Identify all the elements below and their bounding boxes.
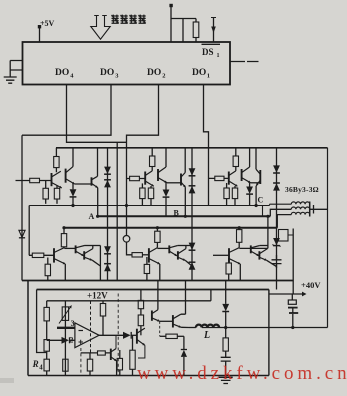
wire feedback drop [159, 321, 161, 336]
wire column x293 + resistor [292, 229, 294, 295]
ground (bottom) [219, 377, 233, 383]
svg-text:2: 2 [162, 73, 165, 80]
resistor R14 (emitter, cell1) [54, 188, 59, 199]
wire base line cell3 [209, 177, 229, 179]
resistor R-top (pull-up above IC) [193, 22, 199, 38]
wire base line cell1 [16, 180, 52, 182]
resistor R13 (emitter, cell1) [43, 188, 48, 199]
wire divider x90 [90, 301, 92, 353]
transistor Q41 [53, 248, 55, 262]
svg-text:+40V: +40V [301, 280, 321, 290]
resistor R81 [130, 350, 135, 369]
transistor Q32 [241, 169, 243, 181]
op-amp U2 [75, 323, 99, 348]
wire Q23 collector to rail [184, 148, 186, 173]
svg-text:A: A [89, 212, 95, 221]
svg-text:DS: DS [202, 47, 214, 57]
junction dot [238, 226, 241, 229]
resistor R22 (collector pull, cell2) [150, 156, 155, 167]
wire DO1 route [204, 85, 209, 206]
resistor R52 (base) [132, 253, 142, 257]
junction dot [291, 326, 294, 329]
wire clamp column 1 [107, 148, 109, 281]
svg-text:4: 4 [39, 365, 43, 372]
wire coil feed 2 [270, 209, 291, 216]
resistor R79 [87, 359, 92, 371]
svg-text:+12V: +12V [87, 291, 108, 301]
junction dot [156, 226, 159, 229]
resistor R76 [166, 334, 177, 338]
resistor R31 (base, cell3) [215, 176, 224, 180]
svg-text:DO: DO [100, 68, 114, 78]
wire Q12 collector to rail [72, 148, 74, 167]
ground (IC left) [4, 77, 17, 83]
diode VD15 [104, 264, 111, 271]
wire top net horizontal [171, 18, 196, 20]
IC right pin wire [230, 61, 259, 63]
transistor Q31 [228, 172, 230, 185]
diode VD33 [273, 183, 280, 190]
transistor Q62 [250, 245, 252, 253]
resistor R34 (emitter, cell3) [232, 188, 237, 199]
IC left pins [10, 61, 22, 78]
resistor R77 [223, 338, 228, 351]
capacitor/test point (teardrop) [127, 228, 133, 255]
svg-text:+5V: +5V [40, 19, 55, 28]
label data-bus (Chinese characters) [112, 15, 119, 24]
resistor R43 (under base) [45, 264, 50, 276]
resistor R41 [61, 234, 66, 247]
transistor Q73 [151, 311, 153, 321]
svg-text:B: B [174, 209, 180, 218]
wire coil feed 3 [277, 215, 291, 228]
node left rail [21, 135, 23, 280]
svg-text:www.dzkfw.com.cn: www.dzkfw.com.cn [137, 363, 347, 384]
transistor Q61 [228, 248, 230, 262]
wire Q71 emitter chain [138, 345, 145, 358]
resistor R42 (base) [32, 253, 44, 257]
wire Q53 collector [185, 246, 187, 249]
wire node C bridge [262, 206, 264, 217]
capacitor C4 [221, 357, 231, 361]
wire Q74 collector [181, 281, 186, 315]
wire base line r2c1 [29, 254, 54, 256]
diode VD32 [273, 165, 280, 172]
svg-text:C: C [258, 196, 264, 205]
transistor Q13 (output, cell1) [91, 177, 93, 185]
wire opamp input 3 [57, 327, 75, 329]
wire Q73->Q74 [160, 320, 173, 322]
resistor R23 (emitter, cell2) [140, 188, 145, 199]
node line lower [64, 227, 277, 229]
transistor Q42 [75, 245, 77, 253]
wire collector bus r2c3 [260, 245, 268, 247]
diode VD22 [189, 168, 196, 175]
capacitor C5 (+40V, polarized) [291, 294, 293, 300]
svg-text:DO: DO [192, 68, 206, 78]
svg-text:36By3-3Ω: 36By3-3Ω [285, 185, 319, 194]
svg-text:DO: DO [55, 68, 69, 78]
transistor Q53 [177, 251, 179, 259]
transistor Q43 [83, 251, 85, 259]
inductor winding La [291, 202, 309, 204]
wire Q72 emitter down [116, 361, 118, 376]
wire top-right net tick [169, 4, 172, 7]
transistor Q22 [157, 169, 159, 181]
junction dot [62, 226, 65, 229]
node L output line [202, 327, 328, 329]
svg-text:1: 1 [207, 73, 210, 80]
wire Q73 collector stub [157, 281, 159, 310]
wire DO3 route [22, 85, 111, 136]
transistor Q63 [258, 251, 260, 259]
wire collector bus r2c2 [178, 245, 192, 247]
wire Q33 collector to rail [255, 148, 257, 169]
resistor R11 (base, cell1) [30, 178, 40, 182]
wire base line cell2 [127, 178, 146, 180]
resistor R74 [138, 300, 143, 308]
resistor R21 (base, cell2) [130, 176, 140, 180]
inductor L [196, 325, 219, 328]
wire Q13 emitter to node A [97, 188, 99, 217]
transistor Q33 (output, cell3, mirrored) [259, 170, 261, 184]
diode VD21 (clamp, cell2) [165, 183, 167, 190]
wire Q72 collector up [115, 335, 117, 348]
wire clamp column 3 [276, 148, 278, 290]
node +12V rail [47, 300, 211, 302]
potentiometer RP1 [62, 307, 68, 321]
junction dot [224, 326, 227, 329]
node box top edge [37, 289, 269, 291]
resistor R4 [44, 359, 49, 371]
wire drop x29 [28, 206, 30, 256]
diode VD25 [189, 262, 196, 269]
transistor Q23 (output, cell2) [180, 174, 182, 186]
inductor winding Lb [291, 207, 309, 209]
resistor R73 [63, 359, 68, 371]
diode VD24 [189, 243, 196, 250]
resistor R78 (output pull-up) [100, 304, 105, 317]
diode VD11 (clamp, cell1) [72, 184, 74, 189]
transistor Q71 [136, 329, 138, 344]
resistor R62 (under base) [226, 263, 231, 274]
transistor Q72 [110, 349, 112, 360]
wire Q12 emitter line [75, 183, 92, 185]
wire Q61->Q62 link [239, 247, 268, 249]
resistor R53 (under base) [144, 264, 149, 273]
diode VD13 [104, 180, 111, 187]
wire Q23 emitter to node B [184, 187, 186, 216]
wire dashed divider 2 [117, 294, 119, 376]
resistor R72 [44, 340, 49, 352]
resistor R71 [44, 307, 49, 321]
wire collector bus r2c1 [85, 245, 101, 247]
box chopper unit [37, 290, 47, 353]
transistor Q21 [144, 172, 146, 185]
diode VD71 [62, 337, 69, 344]
resistor R12 (collector pull, cell1) [54, 157, 59, 168]
wire dashed divider 1 [80, 348, 82, 376]
wire column x117 [116, 142, 118, 280]
capacitor C31 [272, 260, 282, 264]
wire Q41->Q42 link [64, 247, 75, 249]
wire right rail [327, 148, 329, 328]
node supply rail (row1) [56, 147, 328, 149]
diode VD40 (on left rail) [19, 230, 25, 237]
svg-text:L: L [203, 330, 210, 341]
wire x65 vertical [64, 301, 66, 376]
wire Q32 collector to rail [249, 148, 251, 167]
transistor Q12 [65, 169, 67, 183]
diode VD23 [189, 186, 196, 193]
node line mid (A/B) [98, 215, 271, 217]
wire Q63 emitter [267, 260, 277, 266]
capacitor C3 (small block) [98, 351, 106, 355]
wire +40V feed with arrow [269, 293, 302, 295]
wire output drop r2c1 [99, 246, 101, 281]
diode VD72 [123, 332, 131, 339]
wire Q53 emitter [185, 260, 192, 266]
transistor Q11 [51, 173, 53, 186]
wire Q32 emitter line [251, 182, 261, 184]
svg-text:DO: DO [147, 68, 161, 78]
diode VD31 (clamp, cell3) [249, 183, 251, 187]
wire DO2 route [127, 85, 159, 228]
svg-text:2: 2 [69, 335, 73, 344]
resistor R61 (pull) [237, 230, 242, 243]
wire Q13 collector to rail [97, 148, 99, 177]
wire base line r2c3 [213, 254, 229, 256]
diode VD14 [104, 246, 111, 253]
IC U1 (latch/driver) [23, 42, 231, 85]
wire x211 stub [210, 290, 212, 301]
diode VD12 [104, 167, 111, 174]
wire arrow input to IC [213, 18, 215, 43]
wire opamp output [99, 334, 123, 336]
inductor winding Lc [291, 212, 309, 214]
node line A-upper [29, 204, 291, 205]
svg-text:3: 3 [71, 319, 75, 328]
diode VD73 [181, 349, 187, 351]
junction dot [125, 204, 128, 207]
diode VD74 [222, 304, 229, 311]
node bottom rail (row2) [22, 280, 294, 282]
zener VD34 [273, 238, 280, 245]
resistor R33 (emitter, cell3) [224, 188, 229, 199]
resistor R32 (collector pull, cell3) [233, 156, 238, 167]
resistor R80 [117, 358, 122, 370]
svg-text:1: 1 [217, 53, 220, 59]
wire Q43 collector [92, 246, 94, 249]
wire Q74 emitter to L [181, 326, 189, 328]
wire Q43 emitter [92, 260, 100, 266]
data bus arrow (hollow, into IC top) [91, 16, 110, 40]
wire Q22 emitter line [167, 182, 181, 184]
label DS1 with overline [202, 43, 221, 45]
wire coil common bar [309, 202, 311, 217]
wire Q33 emitter to node C [255, 186, 257, 206]
transistor Q52 [168, 245, 170, 253]
wire node B drop to cell r2-3 [267, 216, 269, 248]
wire drop to VD73 [183, 336, 185, 349]
svg-text:R: R [32, 359, 39, 369]
wire x225 column [225, 281, 227, 304]
wire Q51->Q52 link [157, 247, 169, 249]
wire Q22 collector to rail [165, 148, 167, 167]
wire clamp column 2 [191, 148, 193, 281]
resistor R24 (emitter, cell2) [148, 188, 153, 199]
wire DO4 route [67, 85, 127, 143]
transistor Q74 [172, 315, 174, 327]
resistor R75 [138, 315, 143, 326]
transistor Q51 [148, 248, 150, 262]
wire vertical into IC [182, 19, 184, 43]
resistor R51 (pull) [155, 231, 160, 242]
wire +5V to IC [39, 27, 41, 42]
